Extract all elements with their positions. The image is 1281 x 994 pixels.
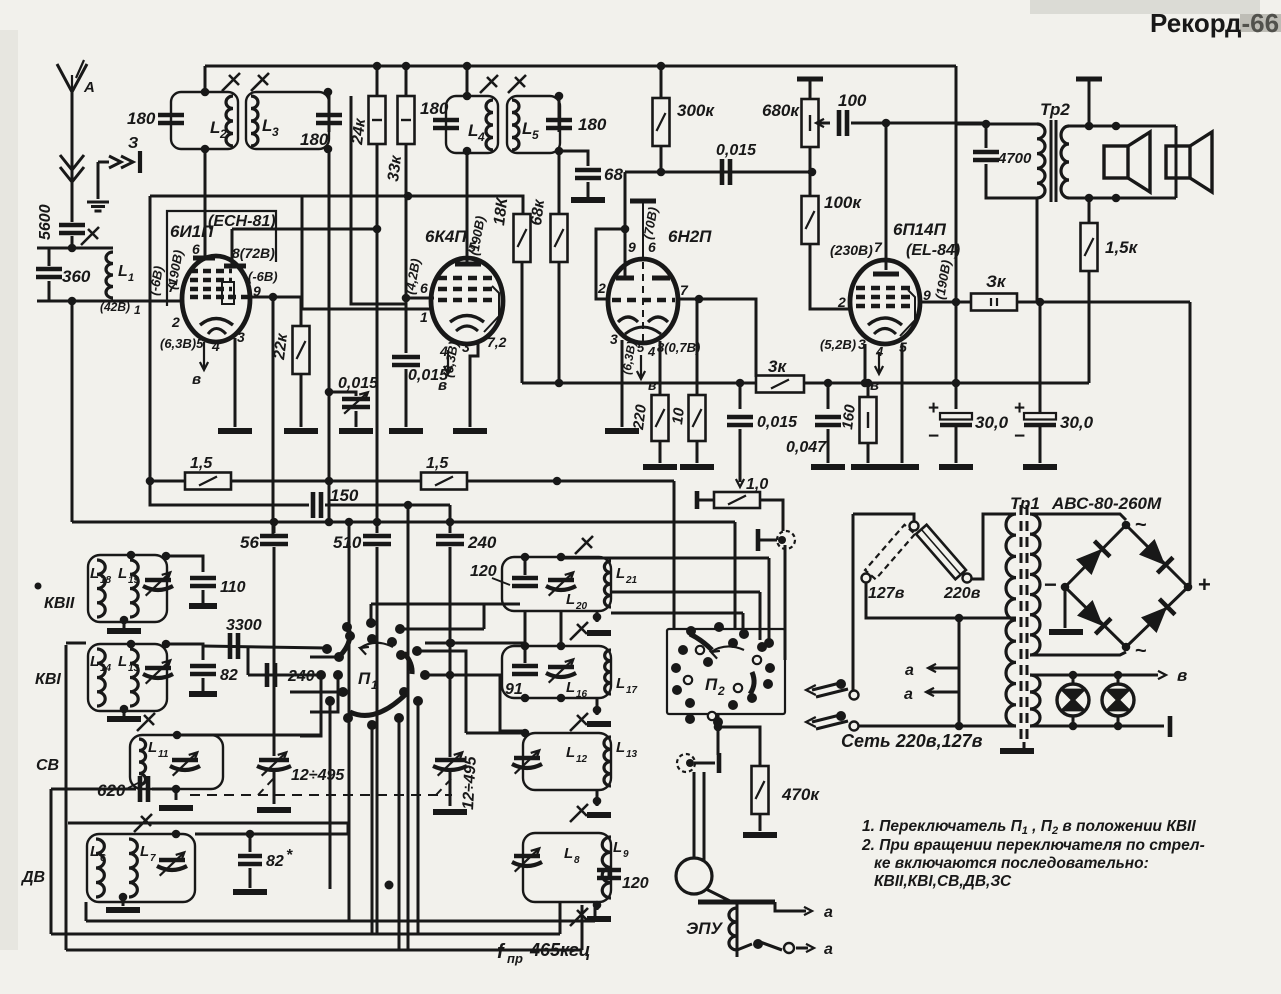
filament arrow U4 [875, 352, 883, 374]
label v U2 [438, 377, 447, 394]
node pin3 bus [861, 379, 870, 388]
node 620 [172, 785, 181, 794]
input bar [695, 491, 700, 509]
П1 column a [348, 522, 351, 921]
svg-text:КВII: КВII [44, 595, 75, 612]
label П1 sub [371, 678, 378, 692]
wrap wire x582 up [581, 905, 584, 950]
node spk1 bottom [1085, 194, 1094, 203]
node lamp1 bot [1069, 722, 1078, 731]
inductor L13 [130, 649, 138, 706]
ground 0015 b [389, 428, 423, 434]
wrap wire y921 [86, 920, 595, 923]
wire U4 pin9 [920, 301, 971, 304]
wire 82x gnd [249, 868, 252, 888]
wire y629 [400, 628, 484, 631]
switch П1 contacts [316, 618, 430, 730]
svg-text:(ЕСН-81): (ЕСН-81) [208, 213, 276, 230]
svg-text:L: L [118, 263, 128, 280]
svg-text:4: 4 [647, 344, 656, 359]
wire L13 gnd stem [596, 790, 599, 806]
capacitor 240 b [267, 663, 275, 687]
wire speaker top [1069, 125, 1176, 128]
switch П2 contacts [671, 622, 775, 727]
switch dot [753, 939, 763, 949]
stray mark left [35, 583, 42, 590]
transformer Tr1 primary [1006, 514, 1016, 726]
label L5 sub [532, 128, 539, 142]
L1 tank top wire [37, 247, 113, 250]
antenna lead wire [71, 92, 74, 222]
avc line [150, 480, 674, 483]
label 70V U3 [640, 206, 660, 241]
svg-text:465кгц: 465кгц [529, 940, 590, 960]
svg-text:в: в [1177, 666, 1187, 685]
node L16 b [557, 642, 566, 651]
svg-text:30,0: 30,0 [975, 413, 1009, 432]
wire 4700 branch [985, 124, 988, 148]
connector a down [784, 545, 787, 660]
label L16 [566, 679, 575, 696]
wire L4 bottom to 6K4P [466, 151, 469, 262]
svg-text:4: 4 [477, 130, 485, 144]
minus 30b [1014, 426, 1025, 447]
svg-text:СВ: СВ [36, 757, 59, 774]
label L5 [522, 119, 532, 138]
node ant-L1 top [68, 244, 77, 253]
resistor 1,5 b [421, 473, 467, 490]
label 82 [220, 667, 238, 684]
node anode 6N2P [621, 225, 630, 234]
wire 120a branch [524, 557, 527, 575]
svg-text:82: 82 [220, 667, 238, 684]
tank box L14 L13 [88, 644, 167, 711]
svg-text:5: 5 [468, 239, 476, 255]
wire 470k top [718, 727, 760, 766]
П1 column d [417, 701, 420, 934]
L1 tank bottom wire [37, 300, 113, 303]
svg-text:19: 19 [128, 575, 140, 586]
wire lamp2 bot lead [1117, 716, 1120, 726]
label 6Н2П [668, 227, 712, 246]
wire 68 cap branch [559, 151, 588, 166]
label + [1198, 572, 1211, 597]
svg-text:Зк: Зк [986, 272, 1007, 291]
wire DV gnd stem [122, 897, 125, 906]
wire y643 [425, 642, 525, 645]
svg-text:220: 220 [630, 403, 650, 432]
left frame x86mid [66, 642, 86, 645]
node x349 top [345, 518, 354, 527]
capacitor C 30,0 a [940, 413, 972, 425]
node L12 top [521, 729, 530, 738]
wire 150 right [325, 504, 450, 507]
label pin7 U4 [874, 239, 883, 255]
label L12 sub [576, 754, 588, 765]
svg-text:7: 7 [150, 853, 156, 864]
trimmer L21 bot [570, 622, 588, 640]
inductor L18 [97, 560, 105, 617]
node tap bottom [955, 722, 964, 731]
node 3kII tr2 [1036, 298, 1045, 307]
wire 240 down [449, 547, 452, 757]
fuse common node [910, 522, 919, 531]
arrow a3 [928, 664, 936, 672]
resistor 22к [293, 326, 310, 374]
variable cap 12-495 a [257, 752, 291, 775]
svg-text:в: в [648, 377, 657, 393]
ground U2 cathode [453, 428, 487, 434]
label 150 [330, 486, 359, 505]
band КВII [44, 595, 75, 612]
grid cap bar U3 [630, 199, 656, 204]
svg-text:360: 360 [62, 267, 91, 286]
antenna label A [83, 79, 95, 96]
wire pin b [694, 762, 715, 765]
node 470k [714, 723, 723, 732]
svg-text:2: 2 [597, 280, 606, 296]
node L5 top [555, 92, 564, 101]
svg-text:*: * [286, 847, 293, 864]
wire x484 down [483, 604, 486, 629]
tube U2 6К4П electrodes [438, 264, 499, 332]
svg-text:12÷495: 12÷495 [460, 755, 480, 810]
label pins 5 4 U3 [637, 340, 645, 355]
svg-text:П: П [358, 669, 371, 688]
trimmer cap L13 [143, 660, 173, 683]
label L17 sub [626, 685, 638, 696]
svg-text:~: ~ [1135, 514, 1147, 536]
label L14 sub [100, 663, 112, 674]
svg-text:6: 6 [648, 239, 656, 255]
inductor L17 [605, 650, 611, 694]
node lamp2 bot [1114, 722, 1123, 731]
П2 feed x743 [742, 613, 745, 636]
ground symbol [87, 202, 109, 211]
pointer 120 [492, 578, 510, 585]
node L2 top [201, 88, 210, 97]
wire 150 corner [449, 505, 452, 523]
label 8 0.7V [657, 340, 700, 355]
node varcap b tap [446, 671, 455, 680]
label 5600 [37, 204, 54, 240]
svg-text:Тр1: Тр1 [1010, 494, 1040, 513]
svg-text:110: 110 [220, 579, 246, 596]
label L19 [118, 565, 127, 582]
wire L9 gnd stem [596, 902, 599, 910]
node bridge bottom [1122, 643, 1131, 652]
capacitor 68 a [575, 170, 601, 178]
wire switch lead [737, 944, 752, 950]
gang dash line [190, 794, 452, 796]
wire y651 [417, 651, 466, 733]
node 160 bus [864, 379, 873, 388]
ground L17 [587, 721, 611, 727]
ground L9 [587, 916, 611, 922]
node pin6 33k [402, 294, 411, 303]
label 3к a [768, 357, 787, 376]
svg-text:300к: 300к [677, 101, 715, 120]
label pin5 U4 [899, 339, 907, 355]
label 220 [630, 403, 650, 432]
node L16 d [557, 694, 566, 703]
label 24к [349, 117, 369, 147]
node L3 top [324, 88, 333, 97]
label L17 [616, 675, 625, 692]
svg-text:68к: 68к [528, 198, 548, 227]
y523 to П2 [734, 522, 737, 629]
wire cap100 right [851, 122, 986, 125]
svg-text:L: L [616, 565, 625, 582]
node L20 top [521, 553, 530, 562]
node 300k 0015 [657, 168, 666, 177]
inductor L9 [602, 837, 611, 898]
svg-text:L: L [148, 739, 157, 756]
svg-text:3: 3 [272, 125, 279, 139]
label 230V [830, 242, 873, 258]
svg-text:1: 1 [371, 678, 378, 692]
trimmer arrow 0015 [344, 392, 368, 413]
wire tr2 prim bottom down [1036, 198, 1039, 302]
node 68k bus [555, 379, 564, 388]
label L6 [90, 843, 99, 860]
svg-text:8(72В): 8(72В) [232, 245, 275, 261]
svg-text:П: П [705, 675, 718, 694]
node spk2 bottom [1112, 194, 1121, 203]
tank box L12 L13 [523, 733, 611, 790]
label 120 a [470, 563, 497, 580]
wire osc cap branch [329, 392, 356, 396]
wire a4 [928, 691, 959, 694]
capacitor 360 [36, 269, 62, 277]
label 91 label [505, 681, 523, 698]
svg-text:21: 21 [625, 575, 638, 586]
inductor L5 [512, 100, 519, 150]
svg-text:А: А [83, 79, 95, 96]
wire 0015a down arrow [739, 468, 742, 482]
arrow a2 [806, 944, 814, 952]
wire 110 gnd [202, 590, 205, 603]
label v out [1177, 666, 1187, 685]
label (42В)1 [100, 300, 130, 314]
stray mark [385, 881, 394, 890]
svg-text:5: 5 [532, 128, 539, 142]
svg-text:1: 1 [420, 309, 428, 325]
inductor L6 [96, 839, 104, 897]
svg-text:100к: 100к [824, 193, 862, 212]
node osc cap [325, 388, 334, 397]
left frame x66 [65, 645, 68, 950]
wire 0015b branch [405, 352, 408, 355]
ground 110 [189, 603, 217, 609]
node bus 300k [657, 62, 666, 71]
wire 0015d down [739, 429, 742, 468]
diode Д3 [1077, 600, 1111, 634]
trimmer КВI-СВ [137, 713, 155, 731]
label 4700 [997, 150, 1032, 167]
node L6 bot [119, 893, 128, 902]
wire connector to ground [98, 161, 109, 164]
node y523 a [270, 518, 279, 527]
svg-text:4: 4 [211, 338, 220, 354]
L1 cap branch [48, 248, 51, 266]
ground 22к [284, 428, 318, 434]
ground 82 [189, 691, 217, 697]
node ant-L1 bottom [68, 297, 77, 306]
top supply bus [205, 65, 956, 68]
trimmer L2 [222, 73, 240, 91]
node bridge top [1122, 521, 1131, 530]
ground КВII [107, 628, 141, 634]
wire 0047 gnd [827, 429, 830, 463]
wrap wire y950 [66, 949, 582, 952]
svg-text:L: L [468, 121, 478, 140]
inductor L3 [251, 96, 258, 146]
L1 cap lower lead [48, 281, 51, 301]
label 180 c [420, 99, 449, 118]
wire 22k bottom [300, 374, 303, 427]
label v U1 [192, 371, 201, 388]
resistor 1,5к [1081, 223, 1098, 271]
svg-text:5600: 5600 [37, 204, 54, 240]
label pin7 U3 [680, 282, 689, 298]
label 30,0 a [975, 413, 1009, 432]
wire 68a to gnd [587, 182, 590, 197]
wire 510 col [376, 144, 379, 533]
wire 300k top [660, 66, 663, 98]
diode Д4 [1141, 599, 1175, 633]
svg-text:180: 180 [578, 115, 607, 134]
svg-text:L: L [566, 744, 575, 761]
svg-text:а: а [824, 904, 833, 921]
ground 220 [643, 464, 677, 470]
label pin4 U4 [875, 344, 884, 359]
wire 6N2P anode up [624, 172, 627, 229]
node tap [955, 614, 964, 623]
node L4 bottom [463, 147, 472, 156]
svg-text:18К: 18К [491, 196, 511, 227]
filament arrow U1 [200, 342, 208, 370]
node L13 top [127, 640, 136, 649]
L2 tank box [171, 92, 238, 149]
wire varcap a gnd [273, 772, 276, 804]
svg-text:КВI: КВI [35, 671, 61, 688]
node L17 bot [593, 706, 602, 715]
band КВI [35, 671, 61, 688]
antenna arrows [60, 155, 84, 182]
wire 240 col [449, 523, 452, 533]
label 1,5 b [426, 455, 449, 472]
node L21 bot [593, 613, 602, 622]
resistor 33к [398, 96, 415, 144]
resistor 68к [551, 214, 568, 262]
label L20 sub [575, 601, 588, 612]
wire U1 pin9 [250, 297, 301, 327]
connector socket a [777, 531, 795, 549]
wire tr2 sec top [1088, 81, 1091, 126]
wire pin6 6K4P [406, 297, 434, 300]
label 6.3V 5 [160, 336, 204, 351]
svg-text:2: 2 [171, 314, 180, 330]
svg-text:1: 1 [134, 303, 141, 317]
svg-text:1,0: 1,0 [746, 476, 768, 493]
label 10 [669, 406, 688, 425]
svg-text:7,2: 7,2 [487, 334, 507, 350]
wire 1.5k column [1088, 198, 1091, 223]
ground 470к [743, 832, 777, 838]
bridge edge tr [1126, 525, 1188, 587]
wire 160 gnd [867, 443, 870, 463]
wire 33k bottom [405, 144, 408, 353]
node 3k right [824, 379, 833, 388]
wire a3 [930, 667, 959, 670]
tank box L18 L19 [88, 555, 167, 622]
label L13 sub [128, 663, 140, 674]
node pin7 U3 [695, 295, 704, 304]
variable cap 12-495 b [433, 752, 467, 775]
wire L1 to tube pin1 [113, 300, 183, 303]
label pin2 U4 [837, 294, 846, 310]
transformer Tr2 primary [1037, 124, 1045, 198]
left frame top [150, 195, 302, 198]
label 220В [943, 585, 981, 602]
resistor 1,0 [714, 492, 760, 508]
П1 left drop b [310, 675, 338, 712]
ground 10 [680, 464, 714, 470]
label pin4 U2 [439, 343, 448, 359]
label pin1 [134, 303, 141, 317]
svg-text:3: 3 [610, 331, 618, 347]
trimmer L13 bot [570, 804, 588, 822]
label L19 sub [128, 575, 140, 586]
label pin1 U2 [420, 309, 428, 325]
label Тр1 [1010, 494, 1040, 513]
plus 30b [1014, 398, 1025, 419]
wire varcap b col [449, 642, 452, 645]
ground U3 pin3 [605, 428, 639, 434]
label 3300 [226, 617, 262, 634]
inductor L14 [97, 649, 105, 706]
label L13 b [616, 739, 625, 756]
label 180 a [127, 109, 156, 128]
wire 127 tap [866, 583, 1016, 618]
wire 1.5k bottom [1088, 271, 1091, 383]
label − [1044, 572, 1057, 597]
connector pin a [756, 529, 761, 551]
node avc mid [325, 477, 334, 486]
pickup coil ЭПУ [729, 908, 737, 950]
band ДВ [20, 869, 45, 886]
wire 680k top [809, 81, 812, 99]
svg-text:180: 180 [127, 109, 156, 128]
resistor 680к [802, 99, 819, 147]
note line2 [861, 837, 1205, 854]
svg-text:7: 7 [874, 239, 883, 255]
wire U2 pin7 down [470, 340, 478, 427]
label 0,047 [786, 439, 827, 456]
trimmer cap L19 [143, 572, 173, 595]
wire 0047 branch [827, 383, 830, 409]
ground КВI [107, 716, 141, 722]
wire 68k bottom [558, 262, 561, 383]
wire 220 to primary [972, 514, 1016, 579]
wire bus corner down [955, 66, 958, 302]
wire 110 branch [167, 556, 203, 572]
wire L17 gnd stem [596, 698, 599, 715]
wire L11 top right [177, 734, 321, 737]
label L9 [613, 839, 622, 856]
wire L4 top to bus [466, 66, 469, 96]
